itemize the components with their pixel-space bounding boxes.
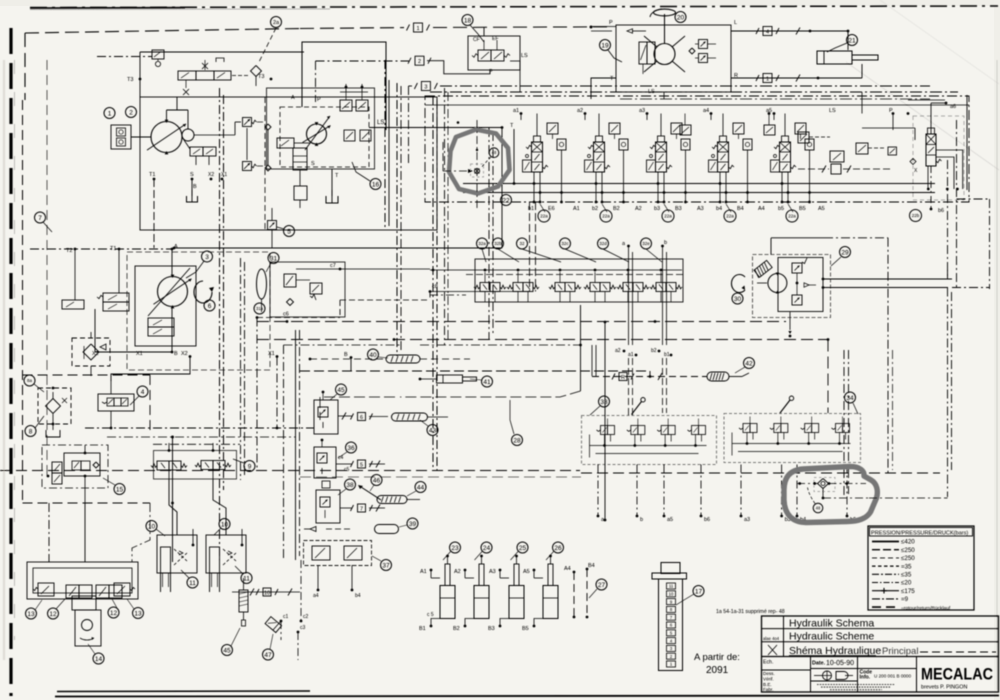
travel pump enclosure bbox=[127, 252, 270, 370]
svg-text:19: 19 bbox=[601, 42, 609, 49]
svg-text:11: 11 bbox=[669, 584, 674, 589]
svg-text:4: 4 bbox=[141, 389, 145, 396]
svg-text:≤35: ≤35 bbox=[901, 572, 912, 579]
svg-text:b2: b2 bbox=[651, 348, 657, 354]
swing block 29 enclosure bbox=[753, 255, 831, 318]
svg-text:6: 6 bbox=[208, 303, 212, 310]
svg-text:31: 31 bbox=[270, 255, 278, 262]
svg-text:33: 33 bbox=[600, 399, 608, 406]
pilot pressure reducer 32c bbox=[584, 269, 616, 302]
assembly feed lines bbox=[49, 436, 174, 562]
svg-text:26: 26 bbox=[554, 545, 562, 552]
svg-text:A3: A3 bbox=[489, 569, 496, 575]
svg-text:b2: b2 bbox=[592, 206, 598, 212]
circled 38 46 bbox=[338, 475, 382, 496]
svg-text:A5: A5 bbox=[818, 206, 825, 212]
circled 8 8a bbox=[24, 375, 44, 437]
circled 22b bbox=[910, 210, 922, 222]
svg-text:22b: 22b bbox=[912, 213, 920, 218]
pilot box 33 internal links bbox=[590, 435, 707, 458]
tank drain under pump S bbox=[187, 179, 198, 202]
svg-text:c8: c8 bbox=[432, 284, 438, 290]
svg-text:5: 5 bbox=[287, 228, 291, 235]
svg-text:9: 9 bbox=[248, 463, 252, 470]
svg-text:c7: c7 bbox=[330, 263, 336, 269]
circled 9 with leader bbox=[233, 459, 255, 472]
circled 41 bbox=[470, 376, 493, 387]
gray highlight ring around item 48 bottom bbox=[784, 467, 877, 523]
damper item 44 bbox=[377, 496, 420, 504]
pilot pressure reducer 32a bbox=[474, 269, 506, 302]
svg-text:10-05-90: 10-05-90 bbox=[826, 660, 854, 667]
svg-text:40: 40 bbox=[369, 352, 377, 359]
circled 18 with leader bbox=[462, 15, 484, 43]
svg-text:A4: A4 bbox=[564, 566, 571, 572]
damper item 40 bbox=[309, 355, 470, 363]
circled 10 items bbox=[146, 519, 230, 537]
bank P feed right bbox=[862, 92, 945, 130]
svg-text:22a: 22a bbox=[788, 214, 796, 219]
svg-text:Dess.: Dess. bbox=[763, 671, 775, 676]
svg-text:45: 45 bbox=[337, 387, 345, 394]
pilot valve 33.4 bbox=[688, 419, 706, 447]
pilot control box 33 enclosure bbox=[582, 416, 717, 465]
pilot box output drops bbox=[597, 465, 857, 524]
pump P3 travel bbox=[148, 268, 192, 316]
svg-text:1a 54-1a-31 supprimé rep- 48: 1a 54-1a-31 supprimé rep- 48 bbox=[716, 609, 785, 615]
steering R line to cylinder 21 bbox=[731, 28, 862, 83]
svg-text:c3: c3 bbox=[300, 625, 306, 631]
svg-text:X1: X1 bbox=[221, 172, 227, 178]
svg-text:L: L bbox=[734, 20, 737, 26]
svg-text:3: 3 bbox=[205, 254, 209, 261]
svg-text:b1: b1 bbox=[528, 206, 534, 212]
circled 32a bbox=[477, 238, 488, 262]
svg-text:Shéma Hydraulique: Shéma Hydraulique bbox=[789, 645, 881, 657]
brake feed block 15 bbox=[42, 445, 108, 503]
svg-text:b4: b4 bbox=[355, 593, 361, 599]
rotation arrow item 6 bbox=[194, 281, 214, 303]
svg-text:Principal: Principal bbox=[882, 646, 918, 657]
svg-text:2091: 2091 bbox=[706, 665, 729, 676]
pilot port labels X2 X1 B mid bbox=[111, 351, 352, 428]
steering L line to cylinder 21 bbox=[731, 27, 849, 51]
svg-text:brevets P. PINGON: brevets P. PINGON bbox=[921, 685, 967, 691]
valve item 47 bbox=[265, 617, 282, 633]
svg-text:12: 12 bbox=[110, 610, 118, 617]
svg-text:32e: 32e bbox=[642, 241, 650, 246]
steering column and wheel 20 bbox=[650, 9, 676, 44]
svg-text:B4: B4 bbox=[588, 563, 595, 569]
svg-text:B2: B2 bbox=[453, 626, 460, 632]
axle block 14 enclosure bbox=[27, 562, 138, 599]
svg-text:alae 4o4: alae 4o4 bbox=[763, 636, 780, 641]
pilot valve 34.4 bbox=[832, 417, 850, 445]
circled 32c bbox=[560, 238, 597, 262]
wire main dash-dot buses vertical left bbox=[220, 88, 245, 560]
pump port labels bbox=[149, 172, 227, 180]
svg-text:T3: T3 bbox=[127, 77, 133, 83]
brake valve 13 left bbox=[33, 583, 54, 596]
svg-text:a6: a6 bbox=[950, 104, 956, 110]
svg-text:b3: b3 bbox=[654, 206, 660, 212]
priority valve 18 enclosure bbox=[468, 36, 520, 70]
title block logo scribble bbox=[814, 671, 853, 680]
pedal unit 14 bbox=[72, 596, 101, 646]
circled 7 with leader bbox=[35, 212, 53, 232]
pilot row feed lines bbox=[430, 269, 682, 295]
svg-text:E6: E6 bbox=[548, 206, 555, 212]
damper item 43 bbox=[392, 413, 449, 421]
svg-text:≤175: ≤175 bbox=[901, 588, 915, 595]
right side down buses to blob bbox=[944, 199, 990, 498]
svg-text:22: 22 bbox=[502, 197, 510, 204]
svg-text:34: 34 bbox=[846, 395, 854, 402]
relief valve pair right of pump bbox=[243, 118, 272, 172]
pilot control box 34 enclosure bbox=[724, 414, 861, 463]
sheet top border bbox=[30, 6, 998, 10]
svg-text:7: 7 bbox=[38, 215, 42, 222]
title block code cell bbox=[859, 670, 914, 688]
circled 39 bbox=[399, 518, 418, 529]
joystick lever 33 bbox=[632, 402, 642, 415]
svg-text:b: b bbox=[664, 240, 667, 246]
svg-text:1: 1 bbox=[416, 26, 419, 32]
svg-text:38: 38 bbox=[346, 482, 354, 489]
svg-text:23: 23 bbox=[451, 545, 459, 552]
filter item 7 bbox=[72, 332, 110, 376]
circled 22 items under bank bbox=[501, 195, 799, 223]
svg-text:6: 6 bbox=[360, 415, 363, 421]
wire right vertical buses bbox=[844, 95, 967, 498]
svg-text:13: 13 bbox=[134, 610, 142, 617]
circled 32b bbox=[493, 238, 520, 262]
svg-text:a1: a1 bbox=[513, 108, 519, 114]
pilot feed dash y371 bbox=[300, 371, 651, 378]
svg-text:48: 48 bbox=[816, 506, 821, 511]
svg-text:B1: B1 bbox=[419, 626, 426, 632]
svg-text:a4: a4 bbox=[313, 593, 319, 599]
steering port labels bbox=[609, 20, 738, 95]
brake valve 12 left bbox=[66, 585, 92, 598]
svg-text:X1: X1 bbox=[268, 351, 275, 357]
svg-text:X2: X2 bbox=[181, 351, 188, 357]
svg-text:32b: 32b bbox=[494, 241, 502, 246]
A4 B4 hose pair item 27 bbox=[564, 563, 595, 618]
svg-text:8: 8 bbox=[29, 428, 33, 435]
svg-text:≤20: ≤20 bbox=[901, 580, 912, 587]
svg-text:10: 10 bbox=[669, 592, 674, 597]
pilot box 34 internal links bbox=[732, 433, 851, 456]
wire T1 down bbox=[153, 179, 155, 248]
svg-text:MECALAC: MECALAC bbox=[921, 666, 993, 684]
svg-text:22a: 22a bbox=[602, 214, 610, 219]
pilot pressure reducer 32b bbox=[507, 269, 539, 302]
travel pump labels bbox=[66, 244, 178, 357]
svg-text:A4: A4 bbox=[758, 206, 765, 212]
svg-text:20: 20 bbox=[677, 14, 685, 21]
svg-text:A2: A2 bbox=[635, 206, 642, 212]
svg-text:b1: b1 bbox=[664, 352, 670, 358]
circled 32d bbox=[598, 238, 630, 262]
svg-text:29: 29 bbox=[841, 249, 849, 256]
svg-text:=rgtour/return/Rücklauf: =rgtour/return/Rücklauf bbox=[901, 605, 951, 611]
title block titles bbox=[763, 618, 996, 657]
svg-text:P: P bbox=[609, 20, 613, 26]
svg-text:a4: a4 bbox=[703, 108, 709, 114]
svg-text:S: S bbox=[190, 172, 194, 178]
main bank enclosure bbox=[425, 96, 969, 202]
long dash return bus y321 bbox=[257, 320, 786, 323]
svg-text:10: 10 bbox=[221, 521, 229, 528]
brake cylinder 10 left bbox=[157, 529, 197, 592]
svg-text:Fabr.: Fabr. bbox=[763, 687, 773, 692]
servo cylinder item 16 bbox=[293, 148, 307, 208]
svg-text:a3: a3 bbox=[639, 108, 645, 114]
pilot valve 34.3 bbox=[801, 417, 819, 445]
left dashed enclosure box bbox=[23, 60, 151, 503]
pilot valve 33.2 bbox=[627, 419, 645, 447]
MECALAC logo bbox=[921, 666, 993, 691]
pump unit 16 enclosure bbox=[267, 88, 375, 169]
svg-text:B5: B5 bbox=[522, 626, 529, 632]
circled 15 with leader bbox=[103, 478, 125, 495]
circled 40 bbox=[368, 349, 389, 360]
circled 23 24 25 26 bbox=[443, 542, 564, 560]
cylinder C23 bbox=[419, 555, 455, 632]
brake valve 12 right bbox=[96, 585, 122, 598]
svg-text:A3: A3 bbox=[697, 206, 704, 212]
svg-text:b6: b6 bbox=[938, 208, 944, 214]
joystick lever 34 bbox=[780, 400, 790, 413]
svg-text:A: A bbox=[174, 244, 178, 250]
svg-text:PRESSION/PRESSURE/DRUCK(bars): PRESSION/PRESSURE/DRUCK(bars) bbox=[871, 531, 968, 537]
svg-text:=35: =35 bbox=[901, 563, 912, 570]
aux valve cluster top left bbox=[97, 50, 304, 97]
steering LS down bbox=[620, 92, 930, 99]
rotation arrow 30 bbox=[731, 275, 745, 293]
svg-text:31a: 31a bbox=[256, 306, 264, 311]
svg-text:U 200 001 B 0000: U 200 001 B 0000 bbox=[874, 674, 911, 679]
hose marker 3 line and LS bus bbox=[409, 82, 959, 164]
svg-text:44: 44 bbox=[417, 484, 425, 491]
brake valve 13 right bbox=[114, 583, 135, 596]
svg-text:Ech.: Ech. bbox=[763, 660, 773, 666]
svg-text:B: B bbox=[193, 184, 197, 190]
accumulator item 39 bbox=[304, 525, 399, 534]
swing motor 30 bbox=[757, 273, 787, 294]
sheet bottom border bbox=[55, 691, 999, 697]
circled 2a with leader bbox=[259, 17, 282, 63]
svg-text:LS: LS bbox=[377, 120, 384, 126]
svg-text:CF: CF bbox=[473, 37, 480, 43]
title block lower cells bbox=[762, 657, 917, 693]
wire center vertical buses bbox=[385, 60, 493, 474]
bank valve section V4 bbox=[709, 114, 753, 213]
svg-text:B5: B5 bbox=[799, 206, 806, 212]
svg-text:13: 13 bbox=[27, 611, 35, 618]
circled 21 with leader bbox=[827, 35, 858, 53]
pilot pressure reducer 32e bbox=[650, 269, 682, 302]
svg-text:28: 28 bbox=[513, 437, 521, 444]
bank valve section V3 bbox=[647, 114, 691, 213]
svg-text:A1: A1 bbox=[420, 569, 427, 575]
title block legal small text bbox=[817, 685, 895, 690]
pump unit enclosure bbox=[140, 97, 437, 230]
cable item 46 bbox=[358, 485, 381, 500]
svg-text:a3: a3 bbox=[744, 517, 750, 523]
svg-text:8a: 8a bbox=[27, 378, 33, 383]
svg-text:T3: T3 bbox=[258, 74, 264, 80]
pilot pressure reducer 32 bbox=[549, 269, 581, 302]
svg-text:10: 10 bbox=[148, 523, 156, 530]
svg-text:=9: =9 bbox=[901, 596, 909, 603]
svg-text:12: 12 bbox=[49, 611, 57, 618]
svg-text:LS: LS bbox=[648, 89, 655, 95]
control tower item 17 bbox=[652, 563, 687, 671]
svg-text:a1: a1 bbox=[628, 352, 634, 358]
pilot valve 34.1 bbox=[739, 417, 757, 445]
svg-text:T1: T1 bbox=[149, 172, 155, 178]
svg-text:3: 3 bbox=[424, 84, 427, 90]
long dash bus under 33 34 bbox=[0, 471, 940, 478]
c1 c2 c3 lines bbox=[232, 560, 309, 660]
circled 6 bbox=[204, 300, 215, 311]
svg-text:36: 36 bbox=[347, 445, 355, 452]
cylinder C26 bbox=[522, 555, 558, 632]
steering valve left section bbox=[639, 42, 655, 74]
svg-text:Hydraulic Scheme: Hydraulic Scheme bbox=[789, 631, 874, 643]
svg-text:22a: 22a bbox=[540, 214, 548, 219]
left horizontal buses y428 437 444 bbox=[85, 427, 314, 445]
bank valve section V1 bbox=[523, 114, 567, 213]
svg-text:B3: B3 bbox=[675, 206, 682, 212]
title block frame bbox=[762, 616, 1000, 692]
svg-text:A5: A5 bbox=[523, 569, 530, 575]
svg-text:2: 2 bbox=[418, 59, 421, 65]
pilot valve 33.3 bbox=[657, 419, 675, 447]
steering cylinder 21 bbox=[817, 51, 878, 64]
sheet left border bbox=[11, 28, 15, 696]
svg-text:B3: B3 bbox=[488, 626, 495, 632]
circled 16 with leader bbox=[352, 162, 381, 190]
svg-text:b: b bbox=[640, 517, 643, 523]
circled 31 31a bbox=[254, 253, 279, 315]
travel pump wires bbox=[30, 249, 172, 352]
svg-text:22a: 22a bbox=[664, 214, 672, 219]
svg-text:R: R bbox=[621, 375, 625, 381]
item 48 bleed valve top bbox=[443, 120, 499, 208]
svg-text:42: 42 bbox=[745, 360, 753, 367]
svg-text:30: 30 bbox=[734, 296, 742, 303]
svg-text:Vérif.: Vérif. bbox=[763, 677, 774, 682]
svg-text:c1: c1 bbox=[283, 614, 289, 620]
svg-text:B4: B4 bbox=[737, 206, 744, 212]
c6 line bbox=[256, 292, 430, 319]
svg-text:≤250: ≤250 bbox=[901, 555, 915, 562]
bank port labels bottom bbox=[528, 206, 825, 212]
brake valve block 9 bbox=[151, 443, 237, 479]
filter item 45b bbox=[239, 590, 248, 626]
engine box item 1 bbox=[111, 125, 151, 149]
pilot valve 33.1 bbox=[597, 419, 615, 447]
svg-text:27: 27 bbox=[598, 582, 606, 589]
brake lines from 9 to 10 bbox=[169, 479, 226, 535]
valve block item 38 bbox=[316, 481, 385, 523]
cylinder C24 bbox=[453, 555, 489, 632]
circled 36 bbox=[338, 442, 357, 458]
gray highlight ring around item 48 top bbox=[449, 130, 510, 194]
svg-text:B2: B2 bbox=[613, 206, 620, 212]
valve block item 45 bbox=[314, 391, 388, 434]
circled 45 47 bbox=[222, 628, 274, 660]
svg-text:P: P bbox=[489, 69, 493, 75]
cylinder item 41 bbox=[419, 375, 477, 383]
pilot pressure reducer 32d bbox=[617, 269, 649, 302]
svg-text:45: 45 bbox=[223, 647, 231, 654]
circled 29 30 bbox=[732, 247, 851, 305]
circled 12 13 14 bbox=[26, 599, 144, 664]
circled 44 bbox=[407, 482, 426, 497]
circled 33 34 bbox=[590, 392, 858, 415]
bank mid small valves right part bbox=[680, 112, 890, 174]
feed block 31 valves bbox=[270, 262, 430, 317]
svg-text:b6: b6 bbox=[704, 517, 710, 523]
svg-text:B: B bbox=[344, 352, 348, 358]
bank T drop lines and c8 bbox=[429, 202, 536, 293]
svg-text:37: 37 bbox=[382, 562, 390, 569]
circled 32 bbox=[517, 238, 562, 262]
pilot valve item 2a area bbox=[277, 138, 310, 148]
priority valve 18 spool bbox=[472, 40, 510, 61]
note text a partir de 2091 bbox=[694, 652, 740, 676]
swing block connections bbox=[771, 238, 952, 473]
circled 37 bbox=[372, 556, 392, 571]
svg-text:39: 39 bbox=[409, 521, 417, 528]
valve block item 36 bbox=[314, 439, 385, 478]
circled 45 bbox=[330, 384, 347, 400]
tank drain T pump16 bbox=[326, 169, 338, 203]
svg-text:14: 14 bbox=[95, 656, 103, 663]
svg-text:47: 47 bbox=[264, 652, 272, 659]
bank valve section V5 bbox=[771, 114, 815, 213]
filter item 8 8a bbox=[38, 387, 71, 437]
bus lines cluster A bbox=[257, 305, 582, 560]
svg-text:43: 43 bbox=[429, 427, 437, 434]
pilot valve row 32 bbox=[466, 259, 683, 302]
steering orbitrol rotor bbox=[644, 36, 685, 72]
circled 43 bbox=[420, 420, 438, 436]
svg-text:32d: 32d bbox=[599, 241, 607, 246]
svg-text:b5: b5 bbox=[778, 206, 784, 212]
circled 32e bbox=[641, 238, 663, 262]
svg-text:21: 21 bbox=[848, 37, 856, 44]
svg-text:c 5: c 5 bbox=[427, 612, 434, 618]
steering P T lines bbox=[590, 26, 616, 99]
circled 3 with leader bbox=[186, 251, 213, 278]
svg-text:c5: c5 bbox=[344, 467, 350, 473]
circled 11 items bbox=[181, 566, 252, 588]
svg-text:32a: 32a bbox=[478, 241, 486, 246]
pump2 outer box corner bbox=[291, 42, 386, 130]
svg-text:2a: 2a bbox=[273, 20, 280, 26]
svg-text:LS: LS bbox=[521, 53, 528, 59]
valve block under pump bbox=[190, 147, 216, 165]
machine outline dashed with hose marker 1 bbox=[25, 23, 612, 100]
circled 42 with leader bbox=[735, 358, 755, 374]
svg-text:48: 48 bbox=[492, 150, 497, 155]
circled 28 with leader bbox=[510, 376, 523, 446]
